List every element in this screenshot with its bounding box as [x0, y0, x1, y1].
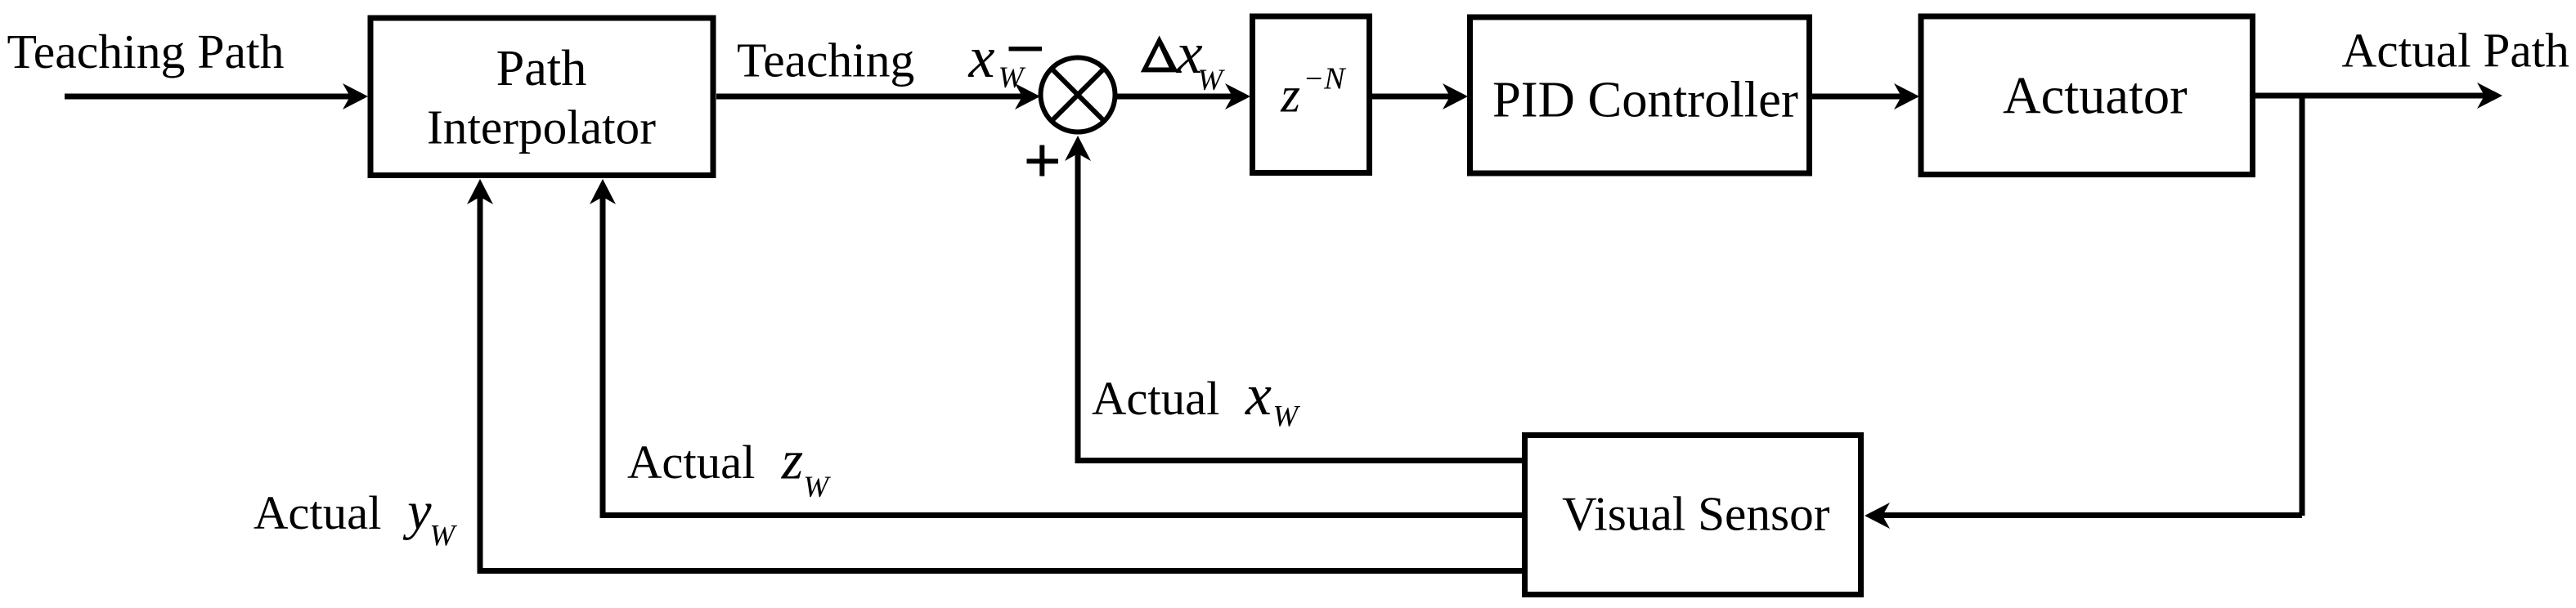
svg-text:y: y — [402, 481, 432, 541]
svg-text:W: W — [429, 520, 457, 553]
svg-text:W: W — [1197, 64, 1225, 97]
svg-text:z: z — [781, 429, 803, 491]
wire: z^-N to PID Controller — [1372, 83, 1468, 110]
svg-text:Teaching: Teaching — [737, 33, 914, 87]
block: Path Interpolator — [370, 18, 713, 176]
wire: PID Controller to Actuator — [1812, 83, 1919, 110]
wire: Path Interpolator to summing junction — [716, 83, 1040, 110]
wire: Actuator to Actual Path output arrow — [2255, 83, 2502, 109]
summing junction circle — [1041, 58, 1115, 132]
label: Delta x_W — [1141, 20, 1226, 97]
label: Actual y_W — [254, 481, 457, 553]
svg-text:x: x — [1245, 362, 1272, 427]
block: PID Controller — [1470, 17, 1810, 173]
wire: Actual z_W feedback (Visual Sensor to Path Interpolator) — [590, 179, 1522, 518]
svg-text:Path: Path — [496, 40, 587, 96]
svg-text:Interpolator: Interpolator — [427, 101, 656, 154]
wire: Teaching Path input arrow — [65, 83, 368, 110]
svg-text:PID Controller: PID Controller — [1492, 71, 1798, 128]
svg-text:W: W — [1272, 400, 1300, 434]
wire: Actual x_W feedback (Visual Sensor to summing junction) — [1065, 136, 1522, 463]
wire: feedback drop from output line to Visual Sensor — [1865, 96, 2302, 529]
label: Actual x_W — [1092, 362, 1300, 434]
svg-text:W: W — [803, 471, 831, 504]
label: z^-N — [1280, 62, 1347, 123]
svg-text:Visual Sensor: Visual Sensor — [1562, 487, 1830, 541]
label: Actual z_W — [627, 429, 831, 505]
svg-text:Actual: Actual — [1092, 372, 1219, 425]
wire: summing junction to z^-N block — [1115, 83, 1251, 110]
svg-text:Actual: Actual — [254, 486, 381, 539]
svg-text:Teaching Path: Teaching Path — [7, 25, 285, 78]
svg-text:x: x — [968, 25, 995, 90]
label: minus sign at summing junction — [1009, 47, 1043, 51]
label: Teaching x_W — [737, 25, 1026, 95]
svg-text:Actual Path: Actual Path — [2342, 24, 2569, 78]
block: Actuator — [1921, 16, 2253, 175]
svg-text:z: z — [1280, 69, 1300, 123]
svg-text:W: W — [999, 61, 1026, 95]
label: plus sign at summing junction — [1027, 145, 1059, 177]
svg-text:Actual: Actual — [627, 436, 755, 489]
svg-text:−N: −N — [1304, 62, 1348, 96]
svg-text:Actuator: Actuator — [2003, 67, 2188, 125]
block: Visual Sensor — [1525, 436, 1861, 595]
wire: Actual y_W feedback (Visual Sensor to Path Interpolator) — [467, 179, 1522, 574]
block: z^-N delay — [1253, 16, 1370, 173]
